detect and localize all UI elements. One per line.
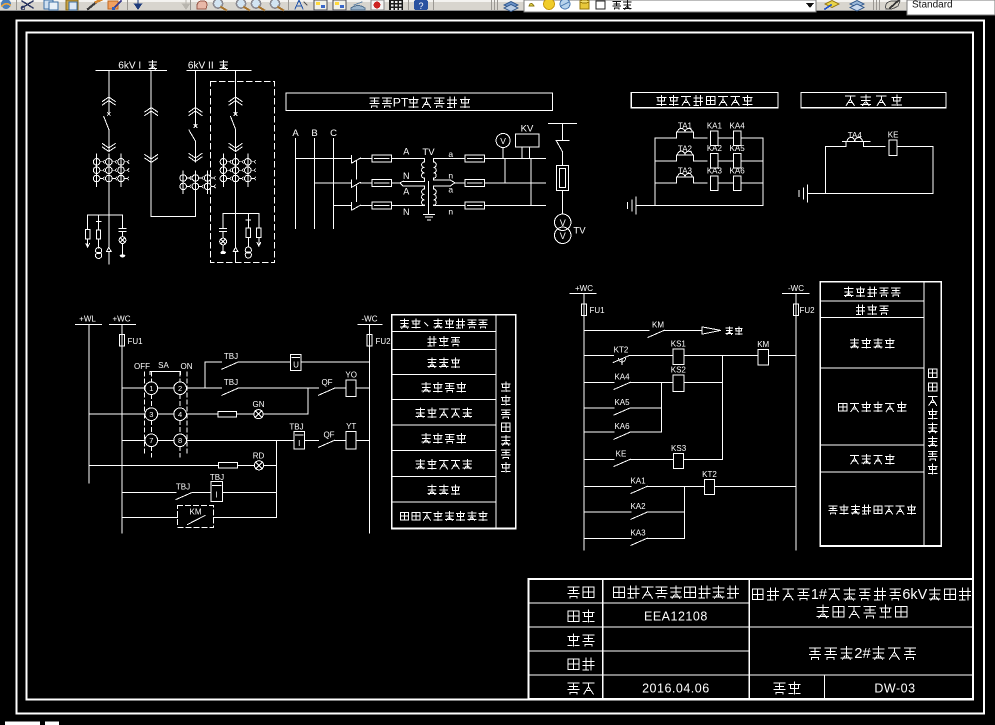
- svg-text:TV: TV: [422, 147, 435, 158]
- wire bottom rail: [636, 204, 763, 206]
- wire: [391, 158, 405, 160]
- svg-text:+WC: +WC: [113, 315, 131, 324]
- svg-text:n: n: [448, 171, 453, 181]
- arrester gap symbol: [233, 247, 237, 251]
- contact KA1: [631, 486, 647, 493]
- wire: [235, 130, 237, 152]
- svg-text:KA1: KA1: [630, 476, 646, 485]
- label drafter: [568, 634, 579, 646]
- svg-text:TBJ: TBJ: [176, 483, 190, 492]
- table row label: [428, 358, 436, 367]
- table row label: [844, 287, 852, 296]
- ground dot: [220, 251, 226, 254]
- toolbar make-layer icon: [825, 1, 839, 8]
- breaker contact bar: [556, 139, 569, 141]
- toolbar properties pencil icon: [886, 1, 900, 9]
- table row label: [428, 485, 436, 494]
- wire: [718, 137, 733, 139]
- svg-text:V: V: [560, 218, 566, 228]
- svg-text:KA3: KA3: [707, 166, 723, 175]
- wire secondary n: [434, 179, 451, 181]
- title block frame: [529, 579, 973, 699]
- wire: [222, 231, 224, 237]
- svg-text:KA3: KA3: [630, 528, 646, 537]
- svg-text:C: C: [330, 128, 337, 139]
- drawout contact lower: [189, 157, 202, 162]
- breaker switch: [234, 113, 237, 116]
- signal relay KS3: [674, 454, 684, 469]
- toolbar zoom icon: [236, 0, 245, 8]
- relay coil KA5: [733, 154, 741, 169]
- svg-text:KV: KV: [521, 124, 534, 135]
- wire row anti-pump: [122, 492, 176, 494]
- wire primary top: [405, 158, 424, 160]
- wire: [264, 464, 277, 466]
- drawout contact lower: [229, 147, 242, 152]
- wire feeder C vertical: [194, 71, 196, 127]
- coil YO closing: [346, 380, 356, 396]
- TV1 secondary winding: [434, 159, 437, 181]
- wire primary bottom: [405, 205, 424, 207]
- switch gang linkage: [355, 162, 357, 179]
- wire: [715, 485, 796, 487]
- svg-text:KA4: KA4: [730, 121, 746, 130]
- wire loop top: [826, 146, 847, 148]
- svg-text:TA3: TA3: [678, 167, 693, 176]
- toolbar copy icon: [44, 0, 53, 9]
- svg-text:KA6: KA6: [614, 422, 630, 431]
- svg-text:EEA12108: EEA12108: [644, 610, 708, 624]
- svg-text:I: I: [215, 491, 217, 500]
- switch SA contact 1: [145, 382, 158, 395]
- svg-text:+WC: +WC: [575, 284, 593, 293]
- wire: [108, 98, 110, 114]
- lamp GN green: [254, 410, 263, 419]
- resistor: [219, 463, 238, 469]
- capacitor: [119, 227, 126, 229]
- ground dot: [120, 254, 126, 257]
- signal relay KS2: [673, 375, 684, 392]
- relay coil KA2: [711, 154, 719, 169]
- toolbar render icon: [371, 0, 384, 10]
- svg-text:2#: 2#: [854, 646, 871, 662]
- wire: [98, 239, 100, 248]
- fuse: [246, 228, 250, 237]
- svg-text:4: 4: [178, 410, 182, 419]
- current transformer TA3: [675, 177, 677, 183]
- wire feeder D branch: [223, 213, 259, 215]
- svg-text:TA1: TA1: [678, 122, 693, 131]
- relay coil KE: [889, 140, 897, 155]
- title box instantaneous and overcurrent protection: [631, 93, 778, 108]
- wire: [684, 355, 758, 357]
- svg-text:OFF: OFF: [134, 362, 150, 371]
- relay coil KM: [758, 350, 769, 366]
- wire: [484, 158, 545, 160]
- label date: [568, 683, 579, 694]
- svg-text:KT2: KT2: [702, 470, 717, 479]
- wire: [237, 464, 254, 466]
- svg-text:ON: ON: [181, 362, 193, 371]
- drawing title: [809, 648, 820, 659]
- fuse FU2: [367, 335, 372, 347]
- svg-text:KA5: KA5: [614, 398, 630, 407]
- svg-text:KM: KM: [757, 340, 769, 349]
- svg-text:KS2: KS2: [671, 365, 687, 374]
- ground: [424, 214, 435, 216]
- fuse secondary row3: [465, 202, 485, 209]
- svg-text:B: B: [311, 128, 317, 139]
- TV2 secondary winding: [434, 186, 437, 206]
- toolbar grid dialog icon: [314, 0, 327, 10]
- wire: [247, 214, 249, 229]
- wire: [664, 329, 702, 331]
- wire: [235, 187, 237, 214]
- disconnect switch: [350, 180, 352, 188]
- trip arrow symbol: [702, 327, 721, 334]
- wire: [122, 215, 124, 228]
- current transformer TA2: [675, 155, 677, 161]
- toolbar redo arrow icon: [183, 0, 190, 9]
- relay coil KA6: [733, 176, 741, 191]
- TV1 primary winding: [422, 159, 425, 182]
- contact TBJ: [222, 362, 238, 369]
- toolbar layers2 icon: [850, 1, 864, 8]
- wire feeder A branch: [88, 214, 123, 216]
- wire: [122, 244, 124, 255]
- wire: [562, 152, 564, 166]
- wire feeder vertical: [108, 71, 110, 107]
- TV2 primary winding: [422, 186, 425, 206]
- table row label: [401, 319, 409, 328]
- wire row C: [334, 205, 352, 207]
- svg-text:V: V: [500, 136, 506, 146]
- contact KA2: [631, 512, 647, 519]
- toolbar background: [0, 0, 995, 11]
- svg-text:KA5: KA5: [730, 144, 746, 153]
- wire: [718, 182, 733, 184]
- wire junction up: [307, 388, 309, 414]
- current transformer group: [180, 175, 187, 182]
- drawout contact upper: [229, 97, 242, 102]
- voltmeter V: [496, 134, 510, 148]
- fuse FU1 right: [582, 304, 587, 316]
- current transformer group: [220, 159, 227, 166]
- switch SA contact 3: [145, 408, 158, 421]
- toolbar globe icon: [1, 0, 11, 9]
- wire phase B vertical: [314, 139, 316, 229]
- svg-text:N: N: [403, 171, 410, 181]
- wire: [694, 182, 707, 184]
- label drawing number: [774, 683, 785, 694]
- wire right junction vertical: [276, 440, 278, 517]
- switch blade: [557, 141, 563, 152]
- wire: [263, 413, 308, 415]
- fuse: [97, 230, 101, 239]
- wire secondary a: [434, 158, 465, 160]
- svg-text:PT: PT: [393, 95, 409, 109]
- wire: [741, 182, 763, 184]
- wire protection row 2: [655, 160, 676, 162]
- svg-text:Standard: Standard: [912, 0, 953, 11]
- switch SA bracket: [150, 371, 180, 373]
- title block right dividers: [749, 626, 973, 628]
- wire: [237, 413, 254, 415]
- wire: [247, 237, 249, 247]
- contact KA5: [614, 408, 630, 415]
- value major text: [613, 587, 624, 597]
- status text remnant: [5, 722, 40, 725]
- wire row close circuit: [122, 387, 145, 389]
- toolbar zoom icon: [213, 0, 222, 8]
- label major: [568, 587, 579, 598]
- discharge lamp: [220, 238, 227, 245]
- wire secondary a2: [434, 185, 451, 187]
- contact KA6: [614, 432, 630, 439]
- cubicle dashed outline: [211, 82, 275, 263]
- table row label: [829, 506, 837, 514]
- wire row A: [296, 158, 352, 160]
- toolbar undo arrow icon: [135, 0, 142, 9]
- wire KA2 KA3 join vertical: [683, 486, 685, 538]
- wire right rail: [762, 138, 764, 205]
- disconnect switch: [350, 203, 352, 211]
- relay KM dashed box: [178, 506, 214, 528]
- toolbar scissors icon: [22, 1, 33, 8]
- disconnect switch: [350, 156, 352, 164]
- contact KA4: [614, 382, 630, 389]
- resistor: [218, 411, 236, 417]
- wire: [630, 458, 674, 460]
- fuse secondary row1: [465, 155, 485, 162]
- toolbar brush icon: [88, 0, 99, 9]
- table row label: [416, 408, 424, 417]
- wire phase C vertical: [333, 139, 335, 229]
- svg-text:QF: QF: [321, 378, 332, 387]
- wire: [238, 361, 291, 363]
- toolbar style combobox: [907, 0, 995, 15]
- svg-text:?: ?: [418, 1, 423, 11]
- svg-text:QF: QF: [323, 430, 334, 439]
- contact TBJ: [176, 493, 192, 500]
- svg-text:KT2: KT2: [614, 346, 629, 355]
- table row label: [839, 403, 847, 411]
- switch SA contact 2: [174, 382, 187, 395]
- toolbar sheet icon: [351, 6, 365, 11]
- wire: [235, 98, 237, 114]
- wire -WC rail: [369, 346, 371, 533]
- svg-text:FU1: FU1: [589, 306, 605, 315]
- relay coil KA1: [711, 131, 719, 146]
- current transformer group: [93, 159, 100, 166]
- svg-text:KA2: KA2: [630, 502, 646, 511]
- label checker: [568, 659, 579, 669]
- wire: [647, 485, 704, 487]
- svg-text:6kV I: 6kV I: [118, 60, 141, 71]
- svg-text:1#: 1#: [811, 587, 827, 603]
- wire: [391, 182, 400, 184]
- wire: [741, 160, 763, 162]
- wire: [684, 458, 723, 460]
- toolbar layers icon: [504, 2, 518, 9]
- wire: [484, 182, 545, 184]
- svg-text:SA: SA: [158, 361, 169, 370]
- table row label: [422, 434, 430, 443]
- toolbar layer combobox: [524, 0, 816, 12]
- svg-text:FU1: FU1: [127, 337, 143, 346]
- table row label: [428, 336, 436, 345]
- svg-text:7: 7: [149, 436, 153, 445]
- svg-text:KM: KM: [652, 320, 664, 329]
- svg-text:KA1: KA1: [707, 121, 723, 130]
- svg-text:FU2: FU2: [375, 337, 391, 346]
- contact KT2 delayed: [613, 356, 629, 363]
- wire parallel contacts vertical: [660, 382, 662, 432]
- wire row close indicator: [89, 464, 219, 466]
- wire: [630, 381, 673, 383]
- wire KS outputs vertical: [722, 356, 724, 460]
- fuse FU2 right: [793, 304, 798, 316]
- wire row I: [584, 537, 631, 539]
- wire protection row 1: [655, 137, 676, 139]
- svg-text:TA4: TA4: [848, 131, 863, 140]
- drawout contact upper: [145, 108, 158, 113]
- wire row E: [584, 431, 614, 433]
- wire N: [400, 181, 403, 183]
- TV meter circles: [555, 214, 571, 230]
- svg-text:A: A: [403, 147, 409, 157]
- svg-text:A: A: [292, 128, 299, 139]
- svg-text:U: U: [293, 361, 299, 370]
- wire: [718, 160, 733, 162]
- svg-text:6kV II: 6kV II: [188, 60, 214, 71]
- title box incoming PT wiring scheme: [286, 93, 553, 111]
- relay coil KA3: [711, 176, 719, 191]
- wire phase A vertical: [295, 139, 297, 229]
- label trip: [726, 327, 733, 335]
- toolbar pan hand icon: [197, 1, 207, 9]
- svg-text:3: 3: [149, 410, 153, 419]
- svg-text:DW-03: DW-03: [874, 682, 915, 696]
- svg-text:-WC: -WC: [362, 315, 378, 324]
- toolbar help icon: [414, 0, 428, 10]
- wire -WC rail right: [795, 316, 797, 550]
- bus 6kV II: [187, 70, 251, 72]
- fuse FU1: [120, 335, 125, 347]
- svg-text:RD: RD: [253, 452, 265, 461]
- wire row H: [584, 511, 631, 513]
- relay TBJ current coil 2: [211, 482, 223, 502]
- ground: [635, 197, 637, 214]
- svg-text:TBJ: TBJ: [224, 352, 238, 361]
- title box ground protection: [801, 93, 946, 108]
- wire: [897, 146, 933, 148]
- wire row B: [315, 182, 352, 184]
- breaker switch: [194, 125, 197, 128]
- svg-text:TBJ: TBJ: [210, 473, 224, 482]
- relay TBJ current coil: [294, 431, 305, 449]
- contact KM: [648, 330, 664, 337]
- table vertical label relay protection action circuit: [928, 369, 937, 377]
- wire protection row 3: [655, 182, 676, 184]
- wire row trip circuit: [122, 439, 145, 441]
- wire: [484, 205, 545, 207]
- wire: [222, 245, 224, 251]
- contact KA3: [631, 538, 647, 545]
- svg-text:GN: GN: [253, 400, 265, 409]
- wire: [769, 355, 796, 357]
- wire branch up from row1: [204, 362, 206, 388]
- svg-text:N: N: [403, 207, 410, 217]
- toolbar zoom icon: [251, 0, 260, 8]
- wire row trip indicator: [89, 413, 145, 415]
- fuse FU row C: [372, 202, 392, 209]
- toolbar zoom icon: [270, 0, 279, 8]
- label student id: [568, 611, 579, 621]
- relay coil KA4: [733, 131, 741, 146]
- wire: [258, 214, 260, 229]
- svg-text:8: 8: [178, 436, 182, 445]
- svg-text:n: n: [448, 207, 453, 217]
- wire loop sides: [825, 147, 827, 194]
- switch SA linkage dashed: [143, 372, 145, 455]
- toolbar paste icon: [66, 0, 78, 10]
- wire: [356, 439, 369, 441]
- toolbar combobox dropdown arrow: [806, 3, 814, 8]
- ground: [807, 185, 809, 202]
- svg-text:6kV: 6kV: [902, 587, 927, 603]
- svg-text:1: 1: [149, 384, 153, 393]
- contact TBJ: [222, 388, 238, 395]
- wire bus stub: [549, 122, 577, 124]
- contact QF auxiliary: [319, 440, 335, 447]
- signal relay KS1: [673, 349, 684, 365]
- svg-text:KA2: KA2: [707, 144, 723, 153]
- breaker switch: [107, 113, 110, 116]
- wire row protection trip: [122, 516, 178, 518]
- svg-text:TA2: TA2: [678, 144, 693, 153]
- switch SA contact 8: [174, 434, 187, 447]
- wire A2: [400, 183, 403, 186]
- table row label: [856, 305, 864, 314]
- wire: [356, 387, 369, 389]
- table row label: [401, 512, 409, 520]
- wire +WC rail: [121, 346, 123, 533]
- wire secondary n2: [434, 205, 465, 207]
- toolbar layer name text: [613, 2, 621, 10]
- surge arrester: [257, 228, 261, 238]
- fuse cartridge: [557, 165, 569, 190]
- table vertical label breaker operation circuit: [501, 382, 510, 392]
- svg-text:TBJ: TBJ: [224, 378, 238, 387]
- svg-text:FU2: FU2: [799, 306, 815, 315]
- secondary neutral ground wire: [428, 182, 430, 215]
- fuse FU row B: [372, 179, 392, 186]
- toolbar grid dialog icon: [333, 0, 346, 10]
- table row label: [416, 459, 424, 468]
- svg-text:2: 2: [178, 384, 182, 393]
- drawout contact lower: [145, 158, 158, 163]
- wire: [305, 439, 319, 441]
- wire: [864, 146, 886, 148]
- wire: [122, 231, 124, 235]
- coil YT trip: [346, 432, 356, 450]
- svg-text:KS3: KS3: [671, 444, 687, 453]
- svg-text:KE: KE: [888, 130, 899, 139]
- svg-text:KA4: KA4: [614, 372, 630, 381]
- toolbar pencil-square icon: [108, 1, 118, 9]
- wire: [741, 137, 763, 139]
